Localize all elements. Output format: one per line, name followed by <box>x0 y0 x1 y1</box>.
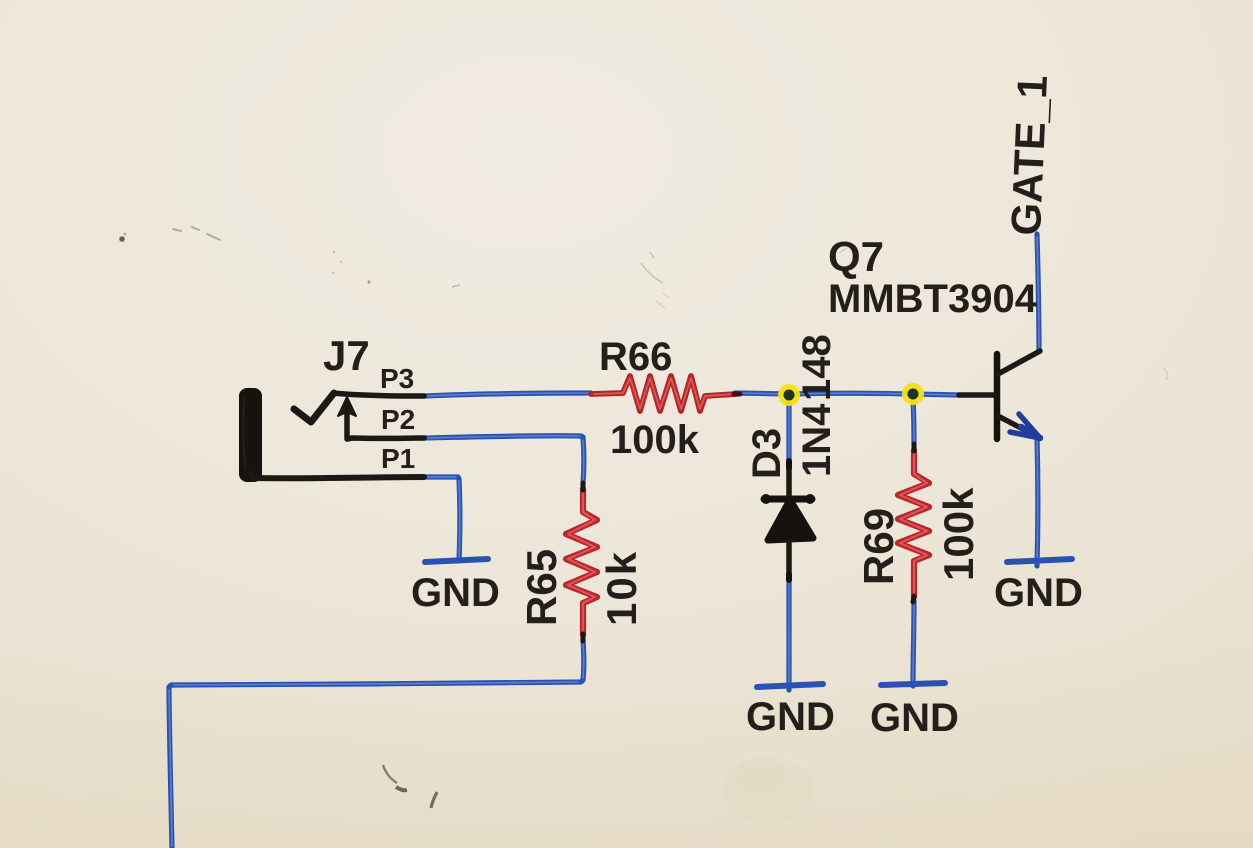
wire node B to R69 <box>913 397 914 445</box>
wire R69 to GND <box>913 601 914 686</box>
wire P1 to GND <box>424 477 460 561</box>
connector J7 body <box>239 388 262 482</box>
wire P2 to R65 top <box>424 436 584 484</box>
ground (D3) <box>746 684 835 739</box>
svg-text:R69: R69 <box>855 508 902 585</box>
J7 wiper arrow (pin P2) <box>338 397 424 439</box>
wire D3 to GND <box>786 578 791 690</box>
lead transition ticks R69 <box>913 444 914 602</box>
wire R65 bottom to left rail <box>169 640 584 848</box>
ground (Q7 emitter) <box>994 559 1083 615</box>
wire Q7 emitter to GND <box>1034 437 1040 566</box>
svg-text:GND: GND <box>746 695 835 739</box>
pin P3 lead <box>334 393 424 396</box>
ground (jack P1) <box>411 559 500 615</box>
wire node A to node B <box>790 391 913 397</box>
svg-text:GND: GND <box>870 696 959 740</box>
Q7 emitter arrow (blue) <box>1010 414 1040 438</box>
lead transition ticks D3 <box>786 461 792 580</box>
resistor R69 <box>898 450 929 597</box>
smudge marks (decorative) <box>119 227 1167 824</box>
J7 tip contact (check mark) <box>294 393 334 422</box>
svg-text:100k: 100k <box>935 487 982 581</box>
svg-text:GND: GND <box>411 571 500 615</box>
diode D3 <box>761 465 815 577</box>
wire R66 to node A <box>735 393 790 394</box>
wire node B to Q7 base <box>913 394 959 395</box>
svg-text:100k: 100k <box>610 418 700 462</box>
svg-text:GATE_1: GATE_1 <box>1002 74 1056 236</box>
svg-text:R66: R66 <box>599 335 672 379</box>
svg-text:J7: J7 <box>323 332 370 379</box>
ground (R69) <box>870 683 959 740</box>
transistor Q7 <box>959 351 1040 439</box>
wire GATE_1 to Q7 collector <box>1037 234 1039 351</box>
lead transition ticks R65 <box>581 483 586 641</box>
svg-text:1N4: 1N4 <box>795 403 839 477</box>
svg-text:10k: 10k <box>598 550 645 626</box>
wire P3 to R66 <box>424 393 591 396</box>
resistor R66 <box>591 376 736 411</box>
R66 lead transition tick <box>734 392 740 397</box>
svg-text:P2: P2 <box>381 404 415 435</box>
svg-text:P1: P1 <box>381 443 415 474</box>
svg-text:R65: R65 <box>518 549 565 626</box>
svg-text:MMBT3904: MMBT3904 <box>828 277 1038 321</box>
svg-text:Q7: Q7 <box>828 233 884 280</box>
svg-text:D3: D3 <box>745 428 789 479</box>
junction node B (yellow highlight) <box>902 383 924 405</box>
junction node A (yellow highlight) <box>778 384 800 406</box>
svg-text:P3: P3 <box>380 363 414 394</box>
resistor R65 <box>566 489 597 635</box>
J7 sleeve lead (pin P1 wire) <box>250 474 424 478</box>
wire node A to D3 <box>786 397 791 462</box>
svg-text:148: 148 <box>795 334 839 401</box>
svg-text:GND: GND <box>994 571 1083 615</box>
